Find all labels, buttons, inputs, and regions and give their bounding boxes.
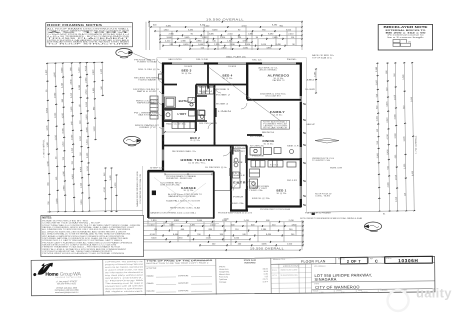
svg-text:CELLULAR BKT: CELLULAR BKT [265,95,282,98]
svg-text:1,210: 1,210 [396,196,398,202]
svg-text:PROVIDE WEEP HOLES & FLASHINGS: PROVIDE WEEP HOLES & FLASHINGS TO ALL EX… [42,252,125,255]
meter box [159,74,164,79]
wind rose symbol W2 [364,222,382,232]
home theatre right wall [230,146,232,191]
svg-text:Frontage: Frontage [219,281,226,284]
svg-text:1,610: 1,610 [55,134,57,140]
svg-text:2,410: 2,410 [71,92,73,98]
svg-text:3,485: 3,485 [261,244,267,246]
svg-text:8,400: 8,400 [387,149,389,155]
copyright cell [105,260,145,293]
cavity sliding doors dark bars [197,95,247,176]
svg-text:2,350: 2,350 [404,163,406,169]
svg-text:PAV BRK TO: PAV BRK TO [273,79,286,82]
svg-text:3,485: 3,485 [62,82,64,88]
garage side dimension lines [104,167,142,212]
svg-text:SHELF: SHELF [233,175,247,177]
alfresco bottom wall [247,99,301,101]
svg-text:COLORBOND SECTIONAL O/H: COLORBOND SECTIONAL O/H [139,173,142,204]
svg-text:TO ROOF STRUCTURE: TO ROOF STRUCTURE [47,44,132,46]
svg-text:RECESSED WALL 31c: RECESSED WALL 31c [172,150,196,153]
svg-text:2,980: 2,980 [377,152,379,158]
svg-text:STEP DN: STEP DN [150,168,165,170]
svg-text:2,060: 2,060 [395,132,397,138]
svg-text:PANTRY: PANTRY [233,150,246,153]
dining/family divider stub [247,134,262,136]
kitchen strip boxed label [234,146,246,149]
left extension lines [91,210,143,218]
svg-text:SIGNATURE: SIGNATURE [178,282,189,285]
svg-text:TILED BASE: TILED BASE [138,79,157,82]
roof framing notes box [46,23,133,47]
garage door leader diagonals [154,178,206,214]
family/dining leader diagonal [209,68,290,129]
svg-text:10306H: 10306H [398,258,418,263]
svg-text:PROVIDE PIER TO PORCH SLAB: PROVIDE PIER TO PORCH SLAB [260,208,291,211]
page no cell [338,257,368,264]
title block [31,256,435,297]
svg-text:920 CSD DOOR: 920 CSD DOOR [199,123,218,125]
top extension lines [149,22,302,50]
svg-text:TOP OF SLAB @ 0c: TOP OF SLAB @ 0c [312,56,332,59]
robe shelf row [198,86,214,94]
svg-text:3,000: 3,000 [86,114,88,120]
svg-text:CONC. TILES: CONC. TILES [315,196,331,198]
drawing title cell [271,257,336,294]
svg-text:ENTRY: ENTRY [233,183,249,185]
svg-text:28.6.11: 28.6.11 [272,270,277,272]
svg-text:1,610: 1,610 [87,139,89,145]
svg-text:3,935: 3,935 [243,41,249,43]
svg-text:GAS STORAGE: GAS STORAGE [138,114,157,117]
svg-text:8,400: 8,400 [87,152,89,158]
svg-text:8,490: 8,490 [62,127,64,133]
owner signature cell [145,259,216,293]
svg-text:WALL PLATE 28c: WALL PLATE 28c [226,56,246,59]
svg-text:4,510: 4,510 [63,141,65,147]
garage left wall [147,171,149,219]
entry door arc [233,183,241,191]
svg-text:PTRY 2: PTRY 2 [235,147,244,149]
robes [251,161,283,168]
svg-text:3,000: 3,000 [166,37,172,39]
svg-text:3,485: 3,485 [190,224,196,226]
svg-text:www.homegroupwa.com.au: www.homegroupwa.com.au [55,291,78,294]
svg-text:14.7.11: 14.7.11 [272,275,277,277]
kitchen wall [246,146,248,191]
svg-text:HALL CL @ 31c: HALL CL @ 31c [166,123,186,126]
svg-text:2,060: 2,060 [272,37,278,39]
svg-text:BED 3: BED 3 [182,69,192,73]
pa door mark [312,213,315,215]
svg-text:2,980: 2,980 [196,41,202,43]
svg-text:uality: uality [416,286,452,301]
svg-text:Home: Home [45,272,58,278]
garage step wall [148,170,163,172]
svg-text:BATH & LDRY: BATH & LDRY [137,90,158,93]
wir shelves [250,169,260,188]
svg-text:2,060: 2,060 [395,113,397,119]
kitchen bench [232,150,240,188]
svg-text:SL @ 28c: SL @ 28c [184,190,194,192]
svg-text:Group: Group [60,272,73,278]
svg-text:1,810: 1,810 [46,69,48,75]
svg-text:SIGNATURE: SIGNATURE [178,274,189,277]
svg-text:KITCHEN 28c: KITCHEN 28c [250,146,264,148]
svg-text:1,610: 1,610 [287,244,293,246]
svg-text:GALV LINTEL: GALV LINTEL [168,58,182,61]
svg-text:REINFORCED CONC. SLAB: REINFORCED CONC. SLAB [170,207,201,210]
svg-text:4,510: 4,510 [85,65,87,71]
alfresco interior dim line [315,69,317,93]
svg-text:R.W.: R.W. [341,292,345,294]
svg-text:BENCH: BENCH [262,132,275,134]
svg-text:2,410: 2,410 [210,224,216,226]
interior wall bath/ldry divider [163,108,196,110]
job no cell [385,256,433,263]
svg-text:1,640: 1,640 [197,220,203,222]
svg-text:SL @ 28c: SL @ 28c [277,193,287,195]
interior corridor wall [214,85,216,146]
svg-text:8,490: 8,490 [212,29,218,31]
svg-text:2,410: 2,410 [289,220,295,222]
svg-text:2,350: 2,350 [177,238,183,240]
svg-text:KITCHEN: KITCHEN [250,136,265,138]
svg-text:4,510: 4,510 [165,41,171,43]
svg-text:4,510: 4,510 [150,234,156,236]
svg-text:3,485: 3,485 [188,29,194,31]
svg-text:SL @ 28c: SL @ 28c [223,78,233,80]
svg-text:4,800: 4,800 [388,181,390,187]
svg-text:1,210: 1,210 [79,67,81,73]
svg-text:290: 290 [408,42,411,44]
svg-text:(BRICKS OVERHEAD): (BRICKS OVERHEAD) [260,69,277,72]
svg-text:FRIDGE: FRIDGE [252,156,265,158]
svg-text:OWNER: OWNER [146,276,154,278]
svg-text:POWER TO REAR: POWER TO REAR [137,61,158,64]
svg-text:INSTRUCTION TO BE THE TRUE COP: INSTRUCTION TO BE THE TRUE COPY / PAGE 2 [146,261,208,265]
svg-text:1,210: 1,210 [47,160,49,166]
svg-text:2,830: 2,830 [93,69,95,75]
svg-text:WA: WA [73,271,81,277]
svg-text:1,610: 1,610 [395,174,397,180]
svg-text:SLAB FALL 60mm TO DOOR: SLAB FALL 60mm TO DOOR [166,200,201,203]
svg-text:2,350: 2,350 [214,44,220,46]
svg-text:ROBE 2: ROBE 2 [216,95,230,97]
garage top wall [148,171,214,173]
svg-text:7,790 OVERALL: 7,790 OVERALL [42,139,45,158]
svg-text:All rights reserved.: All rights reserved. [105,290,144,293]
svg-text:8,490: 8,490 [266,234,272,236]
svg-text:SHELF 4: SHELF 4 [199,91,212,93]
svg-text:8,490: 8,490 [268,34,274,36]
linen cupboard column [150,96,158,119]
svg-text:SIGNATURE: SIGNATURE [178,289,189,292]
areas cell [219,259,269,284]
svg-text:1,610: 1,610 [94,125,96,131]
svg-text:480: 480 [306,80,314,82]
svg-text:B1: B1 [383,214,385,216]
svg-text:2,410: 2,410 [228,34,234,36]
svg-text:IN SLAB SPACE: IN SLAB SPACE [263,126,289,129]
wc fixture [199,111,205,119]
svg-text:2,410: 2,410 [288,34,294,36]
svg-text:3,000: 3,000 [86,126,88,132]
interior wall below bed2 / home theatre top [163,145,247,147]
door jambs [162,84,302,189]
svg-text:14.07.11: 14.07.11 [361,292,368,294]
svg-text:2,830: 2,830 [221,47,227,49]
svg-text:FLOOR PLAN: FLOOR PLAN [301,259,326,263]
svg-text:8,400: 8,400 [80,166,82,172]
svg-text:SL RECESS @ 0c: SL RECESS @ 0c [205,167,227,169]
svg-text:PERIMETER - REFER ENG: PERIMETER - REFER ENG [166,178,193,180]
svg-text:3,485: 3,485 [166,25,172,27]
svg-text:ENS SL @ 28c: ENS SL @ 28c [252,198,270,200]
svg-text:2,830: 2,830 [230,44,236,46]
svg-text:BRICKLAYER NOTE: BRICKLAYER NOTE [384,26,429,29]
svg-text:ROOF FRAMING NOTES: ROOF FRAMING NOTES [47,23,102,27]
svg-text:NOTE: REFER TO ENGINEERS DETAI: NOTE: REFER TO ENGINEERS DETAILS FOR ALL… [300,217,363,220]
svg-text:7,790 OVERALL: 7,790 OVERALL [414,135,417,154]
svg-text:1,080: 1,080 [403,74,405,80]
svg-text:2,980: 2,980 [169,34,175,36]
porch step line [214,190,231,192]
svg-text:LINEN: LINEN [218,111,232,113]
svg-text:1,640: 1,640 [81,182,83,188]
svg-text:ROBE: ROBE [270,165,279,167]
garage door (bottom) [148,217,214,218]
svg-text:1,610: 1,610 [394,94,396,100]
garage pier [152,191,156,196]
svg-text:1,610: 1,610 [87,165,89,171]
svg-text:4,800: 4,800 [174,220,180,222]
svg-text:1,640: 1,640 [411,96,413,102]
bottom extension lines [148,220,302,250]
interior wall right of bath/ldry [195,85,197,132]
svg-text:PORTOFINO: PORTOFINO [244,262,256,264]
logo cell [33,262,82,294]
right extension line bottom [308,211,415,212]
svg-text:2,350: 2,350 [56,198,58,204]
svg-text:1,640: 1,640 [227,41,233,43]
svg-text:3,935: 3,935 [71,106,73,112]
leader to wind symbol [134,54,152,61]
exterior wall: top [162,62,302,64]
svg-text:TILED 28c: TILED 28c [230,203,244,205]
svg-text:4,510: 4,510 [86,89,88,95]
svg-text:1,640: 1,640 [206,238,212,240]
svg-text:1,640: 1,640 [54,71,56,77]
svg-text:3,485: 3,485 [184,37,190,39]
svg-text:3,000: 3,000 [204,25,210,27]
revision cell [370,258,378,264]
svg-text:19,590 OVERALL: 19,590 OVERALL [206,17,244,21]
svg-text:BED 4: BED 4 [223,74,233,78]
svg-text:CL @ 31c: CL @ 31c [190,140,200,142]
top dimension line rows [146,21,303,50]
bed2 robe boxes [172,122,195,129]
family boxed note [261,121,290,130]
svg-text:2410 AWN: 2410 AWN [184,65,193,68]
svg-text:OWNER (TYP): OWNER (TYP) [139,127,158,129]
svg-text:HWS O/H: HWS O/H [330,167,343,169]
bath fixtures [165,97,196,108]
bricklayer note box [378,25,432,51]
svg-text:GARAGE DOOR OPENING 4,800 HIGH: GARAGE DOOR OPENING 4,800 HIGH [136,170,139,207]
svg-text:2,830: 2,830 [243,47,249,49]
entry right wall [245,189,247,211]
svg-text:4,510: 4,510 [387,133,389,139]
svg-text:3,935: 3,935 [266,47,272,49]
svg-text:900 REF SP: 900 REF SP [250,160,265,162]
laundry fixtures [165,111,196,120]
svg-text:1,080: 1,080 [63,170,65,176]
interior dim brackets right of plan [303,103,306,206]
svg-text:ROBE 3: ROBE 3 [216,89,229,91]
svg-text:PROVIDE WEEP HOLES @ 1m CTS: PROVIDE WEEP HOLES @ 1m CTS [218,212,253,214]
svg-text:2,350: 2,350 [115,182,117,188]
interior wall bed3/bed4 [207,64,209,87]
svg-text:TO ENTRY O/H: TO ENTRY O/H [312,160,331,162]
svg-text:REFER DETAIL: REFER DETAIL [137,102,155,105]
svg-text:SL @ 28c: SL @ 28c [182,73,192,75]
svg-text:2,350: 2,350 [377,115,379,121]
svg-text:2,410: 2,410 [149,224,155,226]
svg-text:VARIATIONS: VARIATIONS [283,265,299,268]
svg-text:BATH: BATH [179,99,188,103]
svg-text:NOTES:: NOTES: [42,216,52,220]
garage right wall [213,172,215,219]
left margin leader lines [158,62,163,130]
alfresco left wall [246,64,248,100]
window segments on top wall [172,62,296,64]
svg-text:3,935: 3,935 [404,135,406,141]
eave outline [143,58,307,224]
svg-text:CL @ 28c / R.C.: CL @ 28c / R.C. [188,162,207,164]
svg-text:3,485: 3,485 [315,71,317,77]
svg-text:CL @ 31c: CL @ 31c [273,115,283,117]
hall linen boxes [198,110,205,120]
svg-text:4,800: 4,800 [93,87,95,93]
svg-text:8,400: 8,400 [151,238,157,240]
svg-text:8,490: 8,490 [61,67,63,73]
svg-text:2 OF 7: 2 OF 7 [347,260,361,264]
wind rose symbol W1 [116,49,134,59]
interior wall below ldry [163,120,196,122]
exterior wall: right [300,63,302,207]
interior dim line bed2 [163,131,196,133]
svg-text:3,485: 3,485 [209,34,215,36]
svg-text:3,485: 3,485 [110,174,112,180]
wind rose symbol W3 [124,136,142,146]
svg-text:CHECKED: CHECKED [380,290,388,292]
svg-text:2110 AWN: 2110 AWN [228,65,237,68]
svg-text:4,800: 4,800 [72,173,74,179]
svg-text:1,810: 1,810 [151,220,157,222]
svg-text:92c BWK: 92c BWK [305,89,316,91]
porch bottom wall [230,209,248,211]
svg-text:CITY OF WANNEROO: CITY OF WANNEROO [315,284,360,289]
svg-text:19,590 OVERALL: 19,590 OVERALL [250,246,284,250]
ensuite fixtures [250,148,296,168]
svg-text:4,800: 4,800 [291,224,297,226]
notes box [41,215,144,256]
svg-text:4,500: 4,500 [223,219,229,221]
svg-text:8,490: 8,490 [276,44,282,46]
svg-text:1,380: 1,380 [181,41,187,43]
svg-text:2,980: 2,980 [63,185,65,191]
windows on left wall [162,94,164,161]
svg-text:1,810: 1,810 [80,135,82,141]
interior wall below bed3/bed4 [163,84,247,86]
svg-text:8,490: 8,490 [272,25,278,27]
left dimension column [41,61,143,219]
svg-text:2,830: 2,830 [71,79,73,85]
svg-text:GARAGE FLOOR LEVEL: GARAGE FLOOR LEVEL [168,195,196,198]
svg-text:1,610: 1,610 [261,44,267,46]
bed1 suite top wall [247,158,301,160]
svg-text:2,060: 2,060 [234,238,240,240]
svg-text:1,810: 1,810 [163,29,169,31]
door swing arcs [188,87,256,188]
svg-text:1,210: 1,210 [72,147,74,153]
exterior wall: left [162,63,164,172]
garage top interior dim [165,173,212,175]
svg-text:W.I.R: W.I.R [287,180,298,182]
svg-text:2,060: 2,060 [54,92,56,98]
bottom dimension line rows [141,220,304,251]
svg-text:3,935: 3,935 [62,112,64,118]
svg-text:L'DRY: L'DRY [178,112,187,116]
svg-text:2,410: 2,410 [244,220,250,222]
svg-text:4,510: 4,510 [242,25,248,27]
svg-text:12.6 m: 12.6 m [263,281,269,283]
svg-text:O/H DOOR 28c: O/H DOOR 28c [160,185,180,187]
svg-text:1,380: 1,380 [248,34,254,36]
svg-text:3,485: 3,485 [169,224,175,226]
svg-text:2,980: 2,980 [376,66,378,72]
svg-text:BALCATTA W.A. 6021: BALCATTA W.A. 6021 [57,282,76,285]
svg-text:NGL: NGL [287,59,297,61]
svg-text:ROBE 4: ROBE 4 [216,104,228,106]
svg-text:8,490: 8,490 [412,170,414,176]
svg-text:8,490: 8,490 [183,44,189,46]
svg-text:4,800: 4,800 [46,107,48,113]
svg-text:TILED 28c: TILED 28c [249,190,263,192]
svg-text:1,640: 1,640 [101,68,103,74]
svg-text:JOB No: JOB No [386,258,392,260]
svg-text:GARAGE DOOR OPENING 4,500 x 2,: GARAGE DOOR OPENING 4,500 x 2,100 O/ALL [150,211,196,214]
svg-text:3,000: 3,000 [81,199,83,205]
svg-text:2,060: 2,060 [71,134,73,140]
svg-text:1,380: 1,380 [47,141,49,147]
svg-text:ACCEPTED:: ACCEPTED: [146,267,157,270]
svg-text:ALFRESCO: ALFRESCO [268,74,290,78]
svg-text:SL @ 31c: SL @ 31c [264,143,274,145]
svg-text:PORCH: PORCH [233,196,244,198]
svg-text:SINK O.F.: SINK O.F. [287,146,300,148]
svg-text:BUILDER: BUILDER [147,291,156,293]
exterior wall: bottom right [247,205,302,207]
svg-text:GAS HP: GAS HP [306,123,316,126]
site address text [271,263,435,295]
svg-text:2,060: 2,060 [376,79,378,85]
svg-text:3,935: 3,935 [387,101,389,107]
svg-text:SSL 22c: SSL 22c [252,59,262,61]
svg-text:be a 3 course length: be a 3 course length [388,36,424,39]
svg-text:1,810: 1,810 [220,37,226,39]
